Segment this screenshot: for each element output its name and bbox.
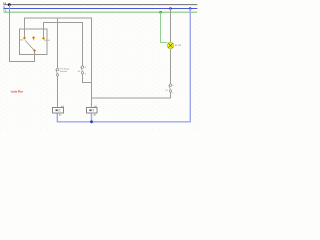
switch S1: [165, 84, 174, 95]
contact point common: [33, 49, 36, 52]
neutral wire N bus: [57, 9, 190, 122]
wire N to lamp: [170, 9, 172, 43]
rail L1: [3, 2, 197, 5]
junction on L1: [8, 3, 11, 6]
svg-text:Schalter: Schalter: [60, 70, 68, 73]
coil K1: [53, 105, 65, 117]
wire branch to switch S2: [57, 18, 59, 68]
contact point throw 1: [23, 36, 26, 39]
junction on N (right drop): [189, 7, 192, 10]
neutral stub coil K2: [91, 113, 93, 121]
contact point throw 2: [32, 36, 35, 39]
contact point throw 3: [42, 37, 45, 40]
rail PE: [3, 10, 197, 13]
junction on PE: [159, 11, 162, 14]
wire switch S1 to node: [92, 92, 171, 98]
svg-text:E1 9W: E1 9W: [175, 45, 181, 47]
contact terminal tick pin 3: [44, 39, 47, 41]
svg-text:Licht Flur: Licht Flur: [11, 90, 23, 94]
wire throw 1 to upper bus A: [25, 18, 92, 107]
common stub: [34, 51, 36, 55]
svg-text:N: N: [3, 6, 5, 9]
wire throw 3 to switch S3: [44, 23, 83, 66]
junction on N bus: [90, 120, 93, 123]
wire L1 to changeover common: [10, 5, 35, 62]
lamp E1: [167, 42, 181, 49]
contact terminal tick pin 1: [19, 39, 23, 41]
rail N: [3, 6, 197, 9]
svg-text:PE: PE: [3, 10, 7, 13]
changeover contact box Q1: [20, 29, 48, 55]
wire PE to lamp: [161, 12, 168, 42]
wire lamp to switch S1: [170, 49, 172, 84]
coil K2: [87, 105, 98, 117]
pin stub 2: [33, 39, 35, 41]
contact blade: [25, 40, 34, 50]
wire switch S3 to node: [83, 74, 92, 83]
wire switch S2 to coil K1: [57, 76, 59, 108]
junction on N (lamp feed): [169, 7, 172, 10]
switch S2: [56, 67, 70, 76]
switch S3: [78, 66, 87, 76]
